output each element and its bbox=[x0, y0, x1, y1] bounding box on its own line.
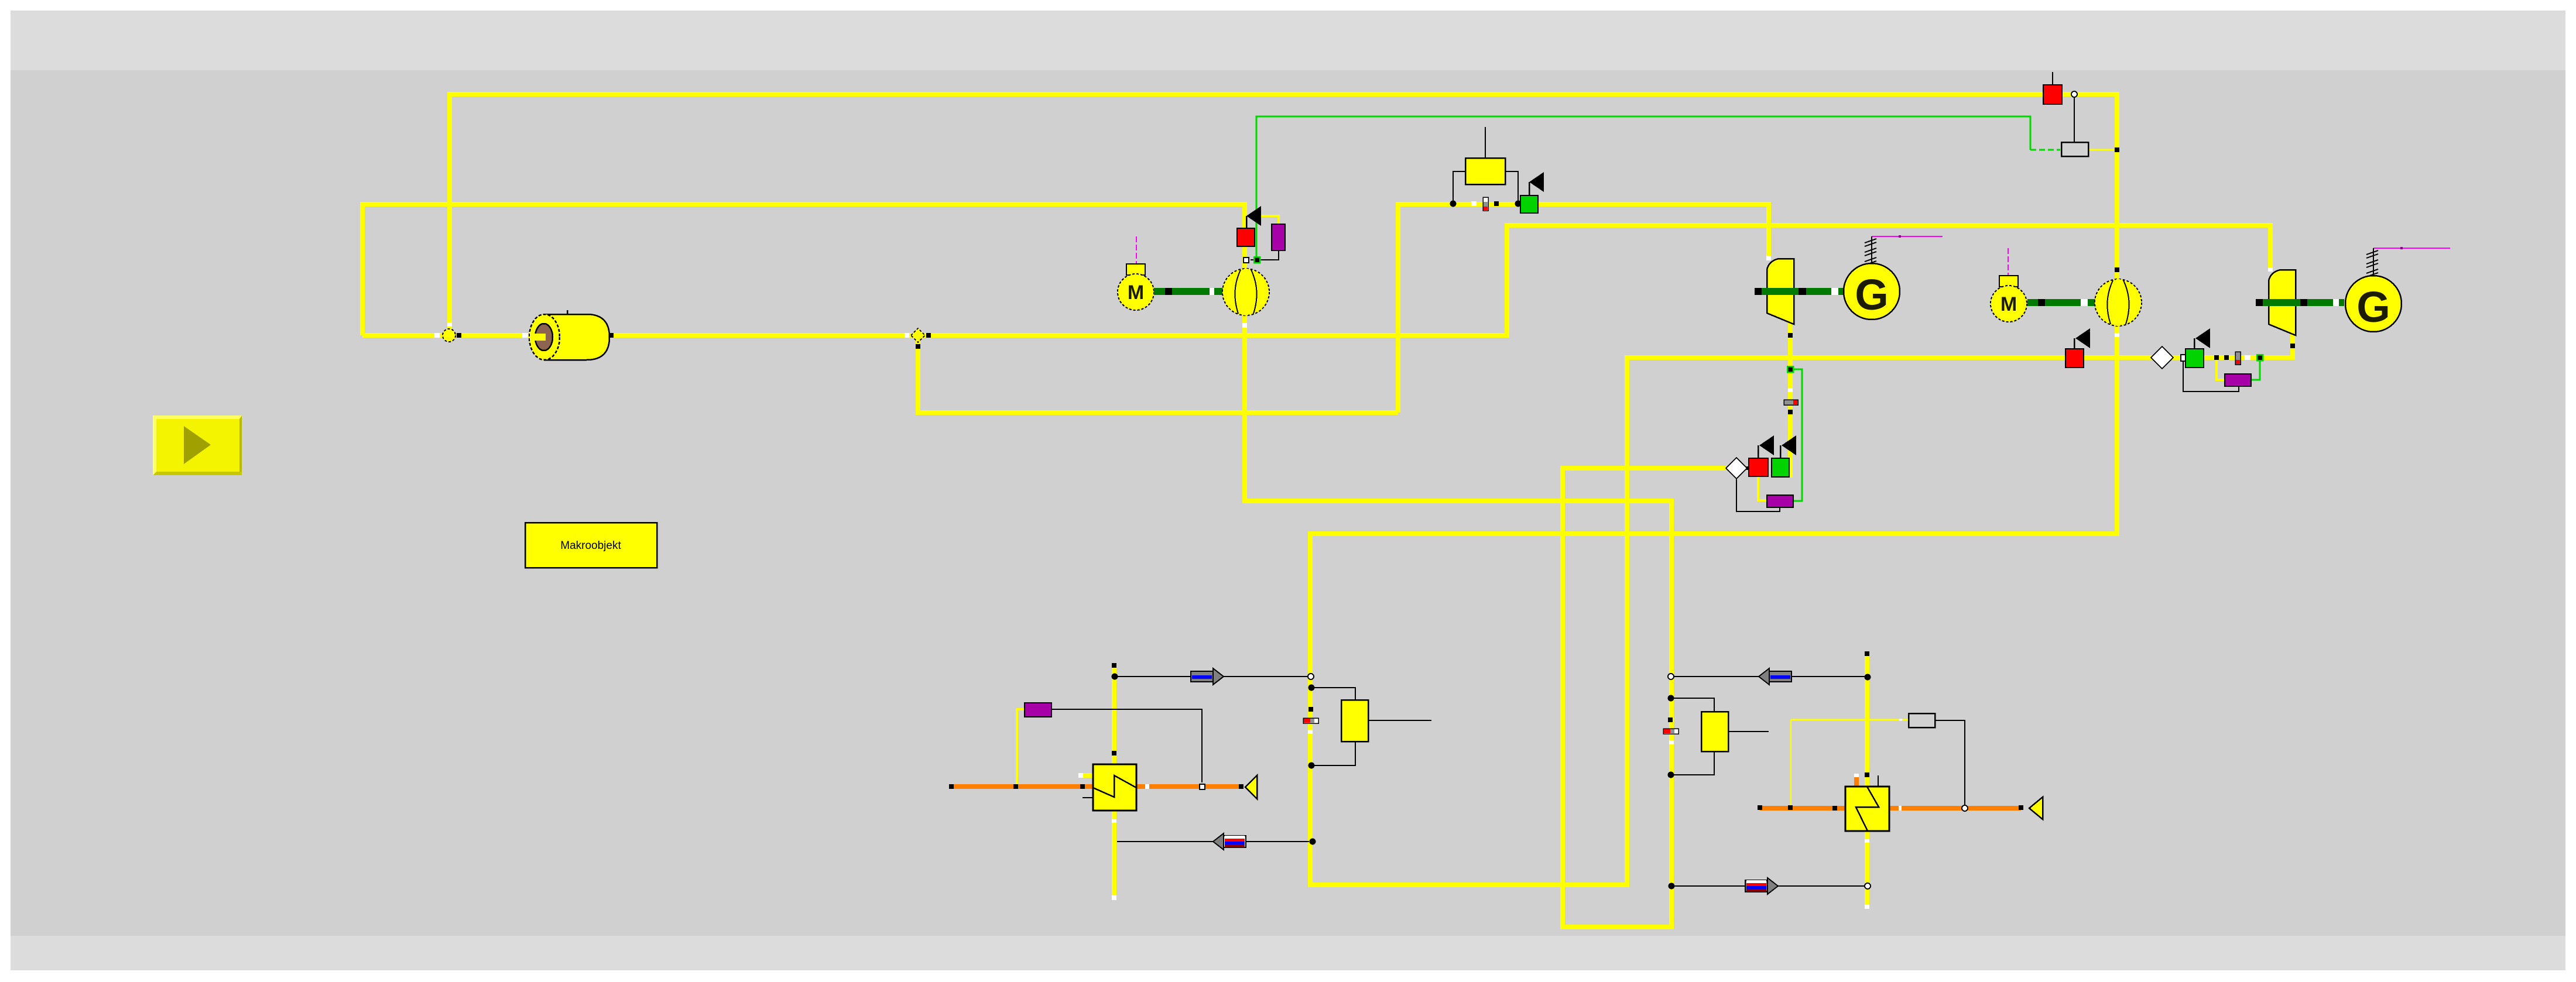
svg-text:M: M bbox=[1128, 281, 1144, 304]
svg-text:G: G bbox=[2356, 283, 2390, 331]
svg-text:M: M bbox=[2000, 293, 2017, 315]
svg-text:Makroobjekt: Makroobjekt bbox=[560, 540, 621, 552]
svg-text:G: G bbox=[1855, 270, 1889, 319]
